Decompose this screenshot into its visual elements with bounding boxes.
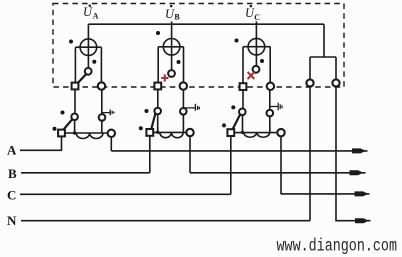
terminal: B coil input (square)	[146, 129, 153, 136]
wire: C coil square down to line C	[230, 136, 232, 194]
wire: bridge between neutral terminals	[310, 56, 336, 58]
wire: link A lower (node to coil square)	[63, 119, 72, 130]
ground symbol phase B	[184, 104, 200, 111]
wire: bridge right drop	[335, 57, 337, 79]
wire: neutral terminal left down to N line	[309, 87, 311, 221]
wire: bridge left drop	[309, 57, 311, 79]
node: B right lower node	[180, 108, 187, 115]
wire: B node down to coil line	[157, 114, 159, 132]
wire: voltage link A (node to terminal)	[78, 74, 87, 83]
terminal: A current terminal	[98, 82, 105, 89]
ground symbol phase C	[270, 103, 282, 111]
wire: B left drop below box	[157, 89, 159, 108]
terminal: C voltage terminal (square)	[240, 83, 247, 90]
voltage element U_B circle	[163, 39, 180, 56]
watermark www.diangon.com	[277, 236, 398, 256]
label U_C	[245, 5, 260, 22]
error mark: red cross at C link	[248, 72, 255, 79]
terminal: A coil input (square)	[58, 130, 65, 137]
wire: A right drop below box	[101, 90, 103, 133]
voltage element U_C circle	[248, 38, 265, 55]
polarity dot B upper	[156, 31, 160, 35]
node: C left lower node	[239, 109, 246, 116]
wire: U_A right leg	[100, 47, 102, 82]
wire: line N	[21, 220, 310, 222]
wire: A left drop below box	[74, 89, 76, 114]
wire: U_A horizontal cross bar	[76, 46, 102, 48]
polarity dot C lower-left of node	[231, 105, 235, 109]
wire: U_C left leg	[242, 47, 244, 83]
polarity dot B lower-left of node	[145, 109, 149, 113]
current coil C humps	[244, 133, 270, 138]
polarity dot B inner	[177, 60, 181, 64]
polarity dot C inner	[260, 59, 264, 63]
wire: U_A vertical cross / top lead	[87, 24, 89, 68]
polarity dot A left of square	[53, 127, 57, 131]
terminal: B coil output	[186, 129, 193, 136]
svg-text:C: C	[7, 187, 16, 202]
wire: U_B right leg	[183, 47, 185, 83]
current coil A line	[65, 132, 108, 134]
wire: line A right	[111, 150, 367, 152]
arrow: line C output	[355, 191, 369, 196]
wire: U_A left leg	[74, 47, 76, 82]
wire: line A left	[20, 149, 62, 151]
svg-text:www.diangon.com: www.diangon.com	[277, 236, 398, 256]
current coil B humps	[160, 132, 183, 137]
wire: link B lower (node to coil square)	[151, 113, 155, 128]
error mark: red plus at B link	[161, 74, 168, 81]
terminal: neutral terminal left	[306, 79, 313, 86]
terminal: neutral terminal right	[332, 79, 339, 86]
wire: neutral terminal right down and out	[336, 87, 354, 221]
wire: U_B left leg	[157, 47, 159, 83]
polarity dot A lower-left of node	[61, 111, 65, 115]
polarity dot A inner	[92, 60, 96, 64]
wire: A coil output down to line A	[110, 137, 112, 151]
arrow: line B output	[350, 170, 364, 175]
voltage element U_A circle	[80, 39, 97, 56]
junction: C coil line tap	[241, 131, 244, 134]
wire: U_C vertical cross / top lead	[255, 21, 257, 65]
label U_B	[165, 5, 180, 22]
polarity dot C left of square	[222, 123, 226, 127]
wire: N arrow lead	[354, 220, 371, 222]
wire: C left drop below box	[242, 90, 244, 110]
svg-text:C: C	[254, 13, 260, 22]
wire: U_C horizontal cross bar	[243, 46, 270, 48]
terminal block dashed boundary	[53, 4, 344, 88]
wire: feed drop to neutral bridge	[323, 24, 325, 57]
polarity dot A upper	[69, 40, 73, 44]
node: C right lower node	[267, 110, 274, 117]
wire: A node down to coil line	[74, 120, 76, 133]
wire: line B left	[21, 172, 150, 174]
junction: A coil line tap	[73, 131, 76, 134]
svg-text:A: A	[93, 12, 99, 21]
node: A left lower node	[71, 114, 78, 121]
current coil A humps	[76, 133, 103, 139]
wire: A coil square down to line A	[61, 136, 63, 151]
terminal: C coil output	[277, 129, 284, 136]
terminal: A coil output	[108, 130, 115, 137]
wire: C right drop below box	[269, 90, 271, 133]
wire: line C left	[20, 193, 231, 195]
wire: common voltage bus at top	[88, 23, 324, 25]
node: A right lower node	[99, 114, 106, 121]
arrow: line N output	[355, 218, 369, 223]
terminal: B voltage terminal (square)	[154, 83, 161, 90]
wire: C node down to coil line	[242, 115, 244, 133]
ground symbol phase A	[102, 110, 114, 116]
svg-text:U: U	[83, 5, 93, 19]
wire: U_B vertical cross / top lead	[171, 21, 173, 70]
svg-text:B: B	[8, 166, 17, 181]
wire: line B right	[190, 172, 366, 174]
wire: B right drop below box	[182, 90, 184, 133]
node: U_C bottom node (open link)	[253, 66, 260, 73]
wire: U_C right leg	[269, 47, 271, 83]
current coil C line	[234, 132, 277, 134]
wire: line C right	[281, 193, 370, 195]
polarity dot C upper	[235, 39, 239, 43]
junction: B coil line tap	[156, 131, 159, 134]
node: U_A bottom node	[85, 68, 92, 75]
wire: B coil square down to line B	[149, 136, 151, 173]
wire: U_B horizontal cross bar	[158, 46, 183, 48]
wire: C coil output down to line C	[280, 136, 282, 194]
arrow: line A output	[352, 148, 366, 153]
polarity dot B left of square	[139, 126, 143, 130]
terminal: C current terminal	[267, 83, 274, 90]
wire: B coil output down to line B	[189, 136, 191, 173]
terminal: B current terminal	[180, 82, 187, 89]
svg-text:A: A	[7, 142, 17, 157]
current coil B line	[153, 131, 186, 133]
wire: link C lower (node to coil square)	[233, 114, 241, 129]
svg-text:N: N	[7, 213, 17, 228]
terminal: A voltage terminal (square)	[72, 83, 79, 90]
node: U_B bottom node (open link)	[168, 70, 175, 77]
label U_A	[83, 5, 99, 21]
svg-text:B: B	[174, 13, 180, 22]
terminal: C coil input (square)	[227, 129, 234, 136]
node: B left lower node	[154, 108, 161, 115]
